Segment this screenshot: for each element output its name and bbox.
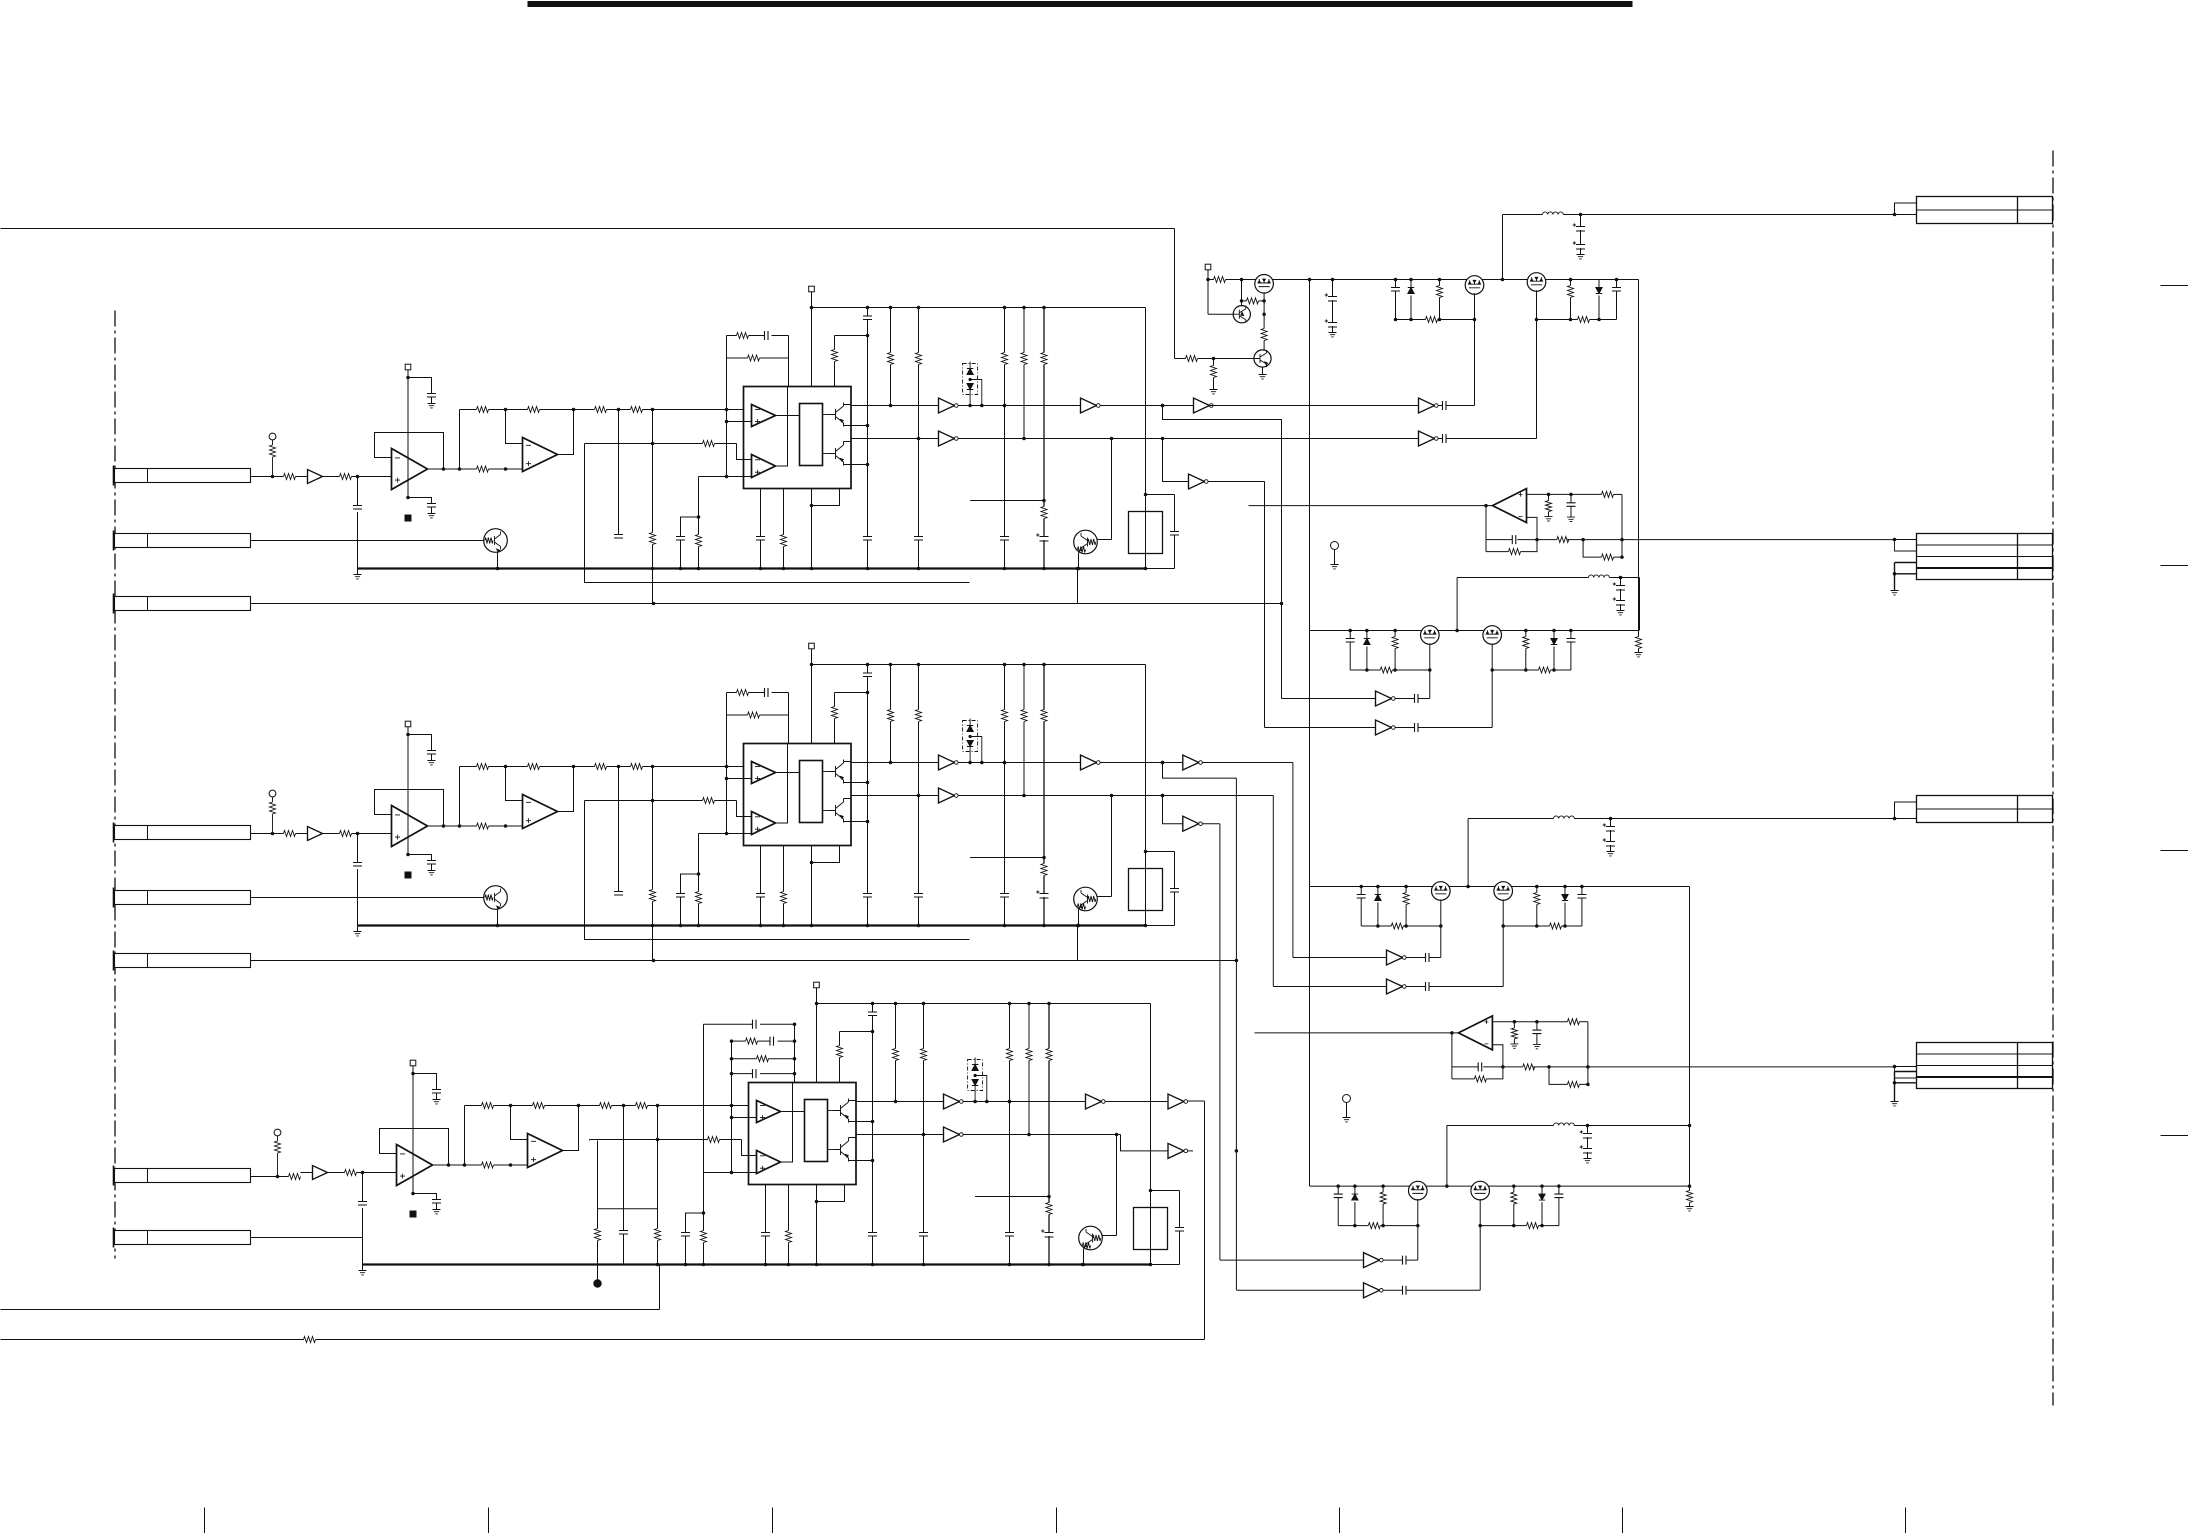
wire 3 sense drop (589, 1140, 591, 1141)
wire Q-ps3a gate (1440, 900, 1442, 958)
wire PS3 subrail L (1361, 925, 1391, 927)
resistor R-1r4 vert (890, 308, 892, 353)
wire 3 pin4 jog (817, 1185, 845, 1202)
wire 1f corner drop (1621, 494, 1623, 557)
capacitor C-2r9 elect (1043, 876, 1045, 894)
capacitor C-3s1 branch (413, 1074, 437, 1090)
wire 2 line A3 (1100, 762, 1183, 764)
buffer A-ps4b (1364, 1283, 1380, 1298)
resistor R-27 (595, 764, 607, 770)
wire ch3 drive jog B3 (1121, 1135, 1169, 1151)
wire 2f sub loop1 (1452, 1067, 1503, 1079)
resistor R-ps4R vert (1513, 1186, 1515, 1192)
wire 1f to connector (1583, 539, 1894, 541)
buffer A-1j (1189, 474, 1205, 489)
op-amp U-33B (757, 1151, 781, 1174)
buffer A-2j (1183, 816, 1199, 831)
capacitor C-ps2f elect (1613, 597, 1625, 605)
node 2 rail x1043.5 (1042, 663, 1046, 667)
capacitor C-ps3f elect (1603, 838, 1615, 846)
wire PS3 subrail R (1503, 925, 1549, 927)
wire PS2 output line (1457, 577, 1588, 579)
resistor R-16 (528, 407, 540, 413)
wire U-33 minus jog (742, 1140, 757, 1156)
capacitor C-ps1e elect (1580, 215, 1582, 227)
resistor R-31 (289, 1174, 301, 1180)
node PS1 rail x1332 (1331, 278, 1335, 282)
wire main rail column (1309, 280, 1311, 1187)
op-amp U-33A (757, 1101, 781, 1123)
capacitor C-1s1 (427, 394, 436, 398)
bottom margin tick 5 (1339, 1508, 1341, 1533)
resistor R-1f4 (1509, 549, 1521, 555)
wire PS1 rail (1208, 279, 1214, 281)
wire net VCC-top horizontal (1, 228, 1175, 230)
wire drive jog A2 (1163, 763, 1237, 779)
wire CN-3B link (251, 1237, 363, 1239)
capacitor C-2m2 (676, 894, 685, 898)
capacitor C-2s2 branch (408, 855, 432, 861)
transistor Q-1a (823, 414, 831, 416)
node 1 rail x890 (889, 306, 893, 310)
capacitor C-1f1 (1570, 494, 1572, 502)
wire PS1 subrail R (1537, 319, 1578, 321)
wire U-22 minus (506, 767, 523, 801)
node 1 bus x1077 (1076, 567, 1080, 571)
ground 2s1 (431, 754, 433, 761)
wire drive column x1236 (1235, 778, 1237, 1290)
wire 3 buffer out (328, 1172, 345, 1174)
node 2 bus x1145 (1144, 924, 1148, 928)
wire Q-ps1d gate (1474, 293, 1476, 405)
capacitor C-3sh (358, 1202, 367, 1206)
buffer A-22 (939, 755, 955, 770)
node PS3 rail xr1564 (1563, 885, 1567, 889)
wire CN-R3 stub2 (1895, 818, 1917, 820)
buffer A-24 (1183, 755, 1199, 770)
title bar (528, 1, 1633, 7)
node 3 rail x1004 (1008, 1002, 1012, 1006)
wire CN-R2 stub2 (1895, 563, 1917, 574)
buffer A-ps4a (1364, 1253, 1380, 1268)
ground CN-R2 (1894, 574, 1896, 591)
wire PS3 right column (1689, 887, 1691, 1187)
resistor R-2f4 (1474, 1076, 1486, 1082)
zener D-2z pair (963, 721, 978, 752)
wire U-13B out (776, 387, 788, 467)
wire CN-R4 stub2 (1895, 1072, 1917, 1083)
node 3 rail x1023.5 (1027, 1002, 1031, 1006)
node 2 bus x1004 (1003, 924, 1007, 928)
resistor R-19 vert (650, 533, 656, 545)
resistor R-ps1e vert (1213, 359, 1215, 366)
connector CN-R4 body (1917, 1043, 2053, 1089)
node PS2 rail xr1570 (1569, 629, 1573, 633)
op-amp U-11 (392, 449, 428, 490)
wire 1 IC pin4 (851, 464, 868, 466)
wire 1 prot drop (1111, 439, 1113, 540)
wire U-12 out (558, 410, 574, 455)
ground 3 bus-left (362, 1265, 364, 1271)
bottom margin tick 6 (1622, 1508, 1624, 1533)
wire drive to ps2a (1282, 698, 1376, 700)
wire U-23A out (776, 772, 800, 774)
wire 1 line A2 (958, 405, 1081, 407)
resistor R-28 (631, 764, 643, 770)
wire 3 line A (856, 1101, 944, 1103)
capacitor C-ps3L (1360, 887, 1362, 895)
wire 1f fb drop (1485, 506, 1487, 552)
node PS3 rail xr1581 (1580, 885, 1584, 889)
diode D-ps1b (1598, 280, 1600, 288)
buffer A-23 (1081, 755, 1097, 770)
resistor R-ps3j vert (1689, 1186, 1691, 1190)
node PS1 rail x1395 (1394, 278, 1398, 282)
capacitor C-3m2 (681, 1233, 690, 1237)
wire U-2f input line (1255, 1032, 1459, 1034)
wire 2 line A (851, 762, 939, 764)
mosfet Q-ps1a (1255, 275, 1274, 294)
wire U-33A out (781, 1111, 805, 1113)
capacitor C-2s2 (427, 861, 436, 865)
wire U-3B plus (704, 1172, 757, 1174)
transistor Q-2b (823, 810, 831, 812)
wire drive to ps3b (1273, 986, 1386, 988)
ground 1s1 (431, 397, 433, 404)
node PS1 rail x1570 (1569, 278, 1573, 282)
buffer A-12 (939, 398, 955, 413)
capacitor C-3f2b (770, 1037, 774, 1046)
wire 3 line B (856, 1134, 944, 1136)
connector CN-R1 divider (1917, 209, 2053, 211)
capacitor C-1r9 elect (1043, 519, 1045, 537)
node 1 bus x698 (697, 567, 701, 571)
connector CN-R4 dividers (1917, 1053, 2053, 1055)
node 3 bus x918 (922, 1263, 926, 1267)
ground 2 bus-left (357, 926, 359, 932)
capacitor C-ps2R (1570, 631, 1572, 639)
wire 1 x867 joins (866, 334, 870, 338)
wire 3 stage1 out row (433, 1164, 482, 1166)
resistor R-211 vert (696, 892, 702, 904)
resistor R-ps1b (1247, 298, 1259, 304)
wire CN-R3 stub1 (1895, 802, 1917, 819)
left border dash-dot line (114, 311, 116, 1259)
wire 1 line A (851, 405, 939, 407)
capacitor C-1p1 pin (760, 489, 762, 537)
wire 2 input (251, 833, 284, 835)
connector CN-R2 dividers (1917, 544, 2053, 546)
capacitor C-s1a (1443, 401, 1447, 410)
ground 3s2 (436, 1203, 438, 1210)
wire bus-to-return tap 2 (1077, 926, 1079, 961)
node 1 bus x1043.5 (1042, 567, 1046, 571)
wire Q-ps2a gate (1429, 644, 1431, 699)
node PS2 rail x1366 (1365, 629, 1369, 633)
node 3 bus x760 (764, 1263, 768, 1267)
node 3 rail x867 (871, 1002, 875, 1006)
wire 2 rail end drop (1145, 665, 1147, 926)
capacitor C-3r9 elect (1048, 1215, 1050, 1233)
resistor R-3r6 vert (1009, 1004, 1011, 1049)
IC U-33 body (749, 1083, 857, 1185)
power pad 12 (809, 286, 815, 292)
connector CN-1B (115, 534, 251, 548)
wire PS2 rail (1310, 630, 1639, 632)
resistor R-312 (746, 1038, 758, 1044)
IC U-13 bias block (800, 404, 823, 466)
wire 2 IC pin2 (851, 782, 868, 784)
capacitor C-3r1 (872, 1004, 874, 1013)
resistor R-111 vert (696, 535, 702, 547)
wire 2 to opamp (352, 833, 392, 835)
wire 2f corner drop (1587, 1022, 1589, 1085)
node 1 rail x1023.5 (1022, 306, 1026, 310)
capacitor C-2bx (1174, 852, 1176, 889)
resistor R-36 (533, 1103, 545, 1109)
wire PS1 output line (1503, 214, 1543, 216)
capacitor C-3s2 branch (413, 1194, 437, 1200)
resistor R-110 (703, 441, 715, 447)
wire 1 rail end drop (1145, 308, 1147, 569)
resistor R-1r7 vert (1023, 308, 1025, 353)
capacitor C-3r2 (868, 1233, 877, 1237)
capacitor C-2r6 (1000, 894, 1009, 898)
resistor R-311 vert (701, 1231, 707, 1243)
wire U-22 out (558, 767, 574, 812)
resistor R-3p2 pin (788, 1185, 790, 1231)
ground 1s2 (431, 507, 433, 514)
wire 2 supply rail (812, 664, 1146, 666)
node 2 rail x867 (866, 663, 870, 667)
wire PS2 out to rail end (1639, 578, 1641, 631)
wire U-32 minus (511, 1106, 528, 1140)
node PS4 rail xr1541 (1540, 1184, 1544, 1188)
node 3 bus x1043.5 (1047, 1263, 1051, 1267)
power pad PS1 (1205, 264, 1211, 270)
wire 1 buffer out (323, 476, 340, 478)
wire U-1f input line (1249, 505, 1493, 507)
wire bus-to-return tap 1 (1077, 569, 1079, 604)
resistor R-ps3L vert (1405, 887, 1407, 893)
wire 1 acgnd drop (698, 477, 700, 535)
mosfet Q-ps1e (1527, 273, 1546, 292)
resistor R-1r8 vert (1043, 308, 1045, 353)
wire 1 input (251, 476, 284, 478)
wire bottom return B (1, 1339, 304, 1341)
wire 3 prot emitter (1083, 1249, 1085, 1265)
wire drive to ps4b (1237, 1289, 1364, 1291)
wire PS4 subrail L (1338, 1225, 1368, 1227)
mosfet Q-ps2b (1483, 626, 1502, 645)
capacitor C-3r6 (1005, 1233, 1014, 1237)
resistor R-37 (600, 1103, 612, 1109)
resistor R-2r3 vert (834, 693, 836, 707)
wire 3 icnet row3 (732, 1058, 757, 1060)
node 2 bus x652 (651, 924, 655, 928)
wire 2 icnet right (788, 693, 790, 744)
resistor R-39 vert (655, 1229, 661, 1241)
capacitor C-ps1a elect (1332, 280, 1334, 297)
wire 1f fb row (1486, 539, 1512, 541)
wire 1 fb riser (459, 410, 461, 470)
resistor R-212 (737, 690, 749, 696)
wire gate s1a (1446, 405, 1475, 407)
wire 3 drop x652 (657, 1106, 659, 1229)
wire CN-R4 stub1 (1893, 1065, 1897, 1069)
wire PS2 out rise (1456, 578, 1458, 631)
node PS2 rail xr1553 (1552, 629, 1556, 633)
wire 2 opamp supply vertical (407, 727, 409, 855)
resistor R-213 (748, 712, 760, 718)
node PS1 rail x1309 (1308, 278, 1312, 282)
op-amp U-23B (752, 812, 776, 835)
wire U-2A plus (727, 778, 752, 780)
node PS3 rail x1360 (1359, 885, 1363, 889)
mosfet Q-ps3a (1432, 882, 1451, 901)
resistor R-2r8 vert (1043, 665, 1045, 710)
node PS1 rail x1241 (1240, 278, 1244, 282)
transistor Q-2p digital (1074, 887, 1098, 911)
resistor R-ps2L vert (1394, 631, 1396, 637)
wire line B to stage1 (1163, 438, 1419, 440)
wire 3 line B2 (963, 1134, 1121, 1136)
mosfet Q-ps2a (1421, 626, 1440, 645)
wire 2 fb riser (459, 767, 461, 827)
capacitor C-3s1 (432, 1090, 441, 1094)
wire CN-R1 stub1 (1895, 203, 1917, 215)
wire U-23 minus feed (653, 800, 703, 802)
diode D-ps2R (1553, 631, 1555, 639)
capacitor C-ps2e elect (1620, 578, 1622, 586)
ground bus 2 (358, 924, 1146, 926)
wire U-2f plus row (1492, 1021, 1567, 1023)
connector CN-2A (115, 826, 251, 840)
wire drive to ps4a (1220, 1259, 1364, 1261)
resistor R-3r7 vert (1028, 1004, 1030, 1049)
wire 2 sense line (585, 801, 970, 940)
capacitor C-s1b (1443, 434, 1447, 443)
mosfet Q-ps4a (1409, 1181, 1428, 1200)
node PS4 rail x1354 (1353, 1184, 1357, 1188)
buffer A-21 (308, 827, 323, 841)
wire drive jog B1 (1163, 439, 1189, 482)
wire PS3 rail (1310, 886, 1690, 888)
node 2 bus x867 (866, 924, 870, 928)
ground TP-2f (1346, 1103, 1348, 1118)
buffer A-14 (1194, 398, 1210, 413)
node 1 bus x811 (810, 567, 814, 571)
wire 3 pad drop (816, 988, 818, 1083)
wire 1 line B (851, 438, 939, 440)
buffer A-s1a (1419, 398, 1435, 413)
node PS2 rail xr1525 (1524, 629, 1528, 633)
resistor R-ps3R vert (1536, 887, 1538, 893)
resistor R-25 (477, 764, 489, 770)
wire 2 fb row (460, 766, 477, 768)
wire PS3 out rise (1467, 819, 1469, 887)
capacitor C-1s2 (427, 504, 436, 508)
capacitor C-1bx (1174, 495, 1176, 532)
wire 3 icnet row1 (704, 1023, 753, 1025)
wire drive jog A1 (1163, 406, 1282, 699)
wire 2 stage1 out row (428, 825, 477, 827)
connector CN-R3 divider (1917, 808, 2053, 810)
node 3 bus x811 (815, 1263, 819, 1267)
buffer A-11 (308, 470, 323, 484)
node 2 bus x918 (917, 924, 921, 928)
buffer A-31 (313, 1166, 328, 1180)
test point TP-11 (269, 433, 276, 440)
capacitor C-2s1 (427, 751, 436, 755)
resistor R-ps1j vert (1638, 631, 1640, 637)
wire 3 vreg link (840, 1031, 873, 1033)
relay box K-3 (1134, 1208, 1168, 1250)
resistor R-1r6 vert (1004, 308, 1006, 353)
node 2 bus x698 (697, 924, 701, 928)
wire CN-R1 stub2 (1895, 214, 1917, 216)
wire U-12 minus (506, 410, 523, 444)
node 2 bus x811 (810, 924, 814, 928)
capacitor C-ps3R (1581, 887, 1583, 895)
connector CN-2B (115, 891, 251, 905)
resistor R-3r4 vert (895, 1004, 897, 1049)
resistor R-22 vertical (272, 797, 274, 802)
resistor R-313 (757, 1056, 769, 1062)
wire 1 prot link (1097, 539, 1112, 541)
resistor R-ps3sR (1550, 923, 1562, 929)
wire PS4 output line (1447, 1125, 1554, 1127)
capacitor C-1r2 (863, 537, 872, 541)
wire 3 icnet row2 (732, 1040, 746, 1042)
node 2 rail x890 (889, 663, 893, 667)
connector CN-3A (115, 1169, 251, 1183)
wire 2 pin4 jog (812, 846, 840, 863)
wire PS1 base line (1175, 358, 1186, 360)
relay box K-2 (1129, 869, 1163, 911)
wire 1 stage1 out row (428, 468, 477, 470)
wire 3 IC pin2 (856, 1121, 873, 1123)
diode D-ps4R (1541, 1186, 1543, 1194)
IC U-33 bias block (805, 1100, 828, 1162)
connector CN-R2 body (1917, 534, 2053, 580)
wire U-13 minus jog (737, 444, 752, 460)
resistor R-17 (595, 407, 607, 413)
capacitor C-ps3gb (1406, 986, 1426, 988)
ground TP-1f (1334, 550, 1336, 565)
wire PS4 subrail R (1480, 1225, 1526, 1227)
buffer A-35 (944, 1127, 960, 1142)
resistor R-1f5 (1602, 554, 1614, 560)
node PS4 rail x1382 (1381, 1184, 1385, 1188)
wire drive to ps2b (1265, 727, 1376, 729)
wire 1 mid drop x584 (585, 443, 653, 445)
buffer A-3j (1168, 1143, 1184, 1158)
wire 1 plus rail x726 (726, 336, 728, 477)
wire drive jog B2 out (1202, 823, 1220, 825)
capacitor C-ps4f elect (1580, 1145, 1592, 1153)
resistor R-3r8 vert (1048, 1004, 1050, 1049)
node 2 rail x1023.5 (1022, 663, 1026, 667)
wire PS1 pnp left (1208, 313, 1233, 315)
bottom margin tick 4 (1056, 1508, 1058, 1533)
node 2 rail x918 (917, 663, 921, 667)
capacitor C-2r1 (867, 665, 869, 674)
capacitor C-ps2gb (1395, 727, 1415, 729)
wire 2 line A2 (958, 762, 1081, 764)
resistor R-12 vertical (272, 440, 274, 445)
resistor R-2f5 (1567, 1081, 1579, 1087)
